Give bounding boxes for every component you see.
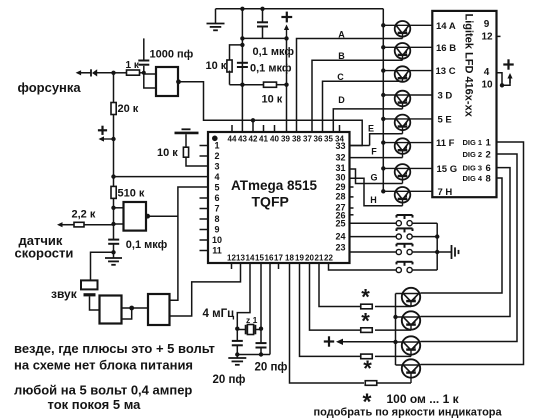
svg-text:41: 41 [259,135,268,144]
svg-text:D: D [338,95,345,105]
wire: display pins 4/10 to +5 arrow [497,73,511,88]
svg-text:10 к: 10 к [206,60,227,72]
display pin 4 label [484,67,490,78]
svg-text:15: 15 [255,254,264,263]
wire: sensor node to MCU pin 4 [114,176,209,178]
wire F: MCU pin32 to T6 base [349,147,400,158]
node: rail/pin43 ladder junction [240,7,244,11]
node: crystal gnd right [259,352,263,356]
pushbutton SB1 [350,215,438,226]
buzzer BQ1 (звук) [81,280,100,310]
wire: DIG4 to driver Q1 [421,178,503,293]
svg-text:42: 42 [249,135,258,144]
transistor Q1 (digit driver) [396,288,421,307]
svg-text:8: 8 [486,174,491,185]
svg-text:31: 31 [335,163,345,173]
node: crystal right junction [259,327,263,331]
svg-text:38: 38 [292,135,301,144]
node: +5 junction y38 [284,36,288,40]
node: 1k/cap junction [142,71,146,75]
svg-text:DIG 1: DIG 1 [463,138,483,147]
svg-text:22: 22 [324,254,333,263]
pushbutton SB3 [350,244,438,255]
svg-text:23: 23 [335,243,345,253]
node: U1 output [176,79,181,84]
svg-text:14 A: 14 A [436,21,456,32]
svg-text:4: 4 [214,172,219,182]
note: brightness note [314,407,503,419]
svg-text:15 G: 15 G [437,164,458,175]
svg-text:11: 11 [212,246,222,256]
svg-text:8: 8 [214,214,219,224]
svg-text:*: * [361,285,370,310]
svg-text:18: 18 [285,254,294,263]
transistor T7 (segment G) [383,164,432,183]
svg-text:6: 6 [486,163,491,174]
node: crystal gnd left [235,352,239,356]
wire D: MCU pin35 to T4 base [333,95,399,132]
display pin 12 label [482,32,494,43]
wire: DIG1 to driver Q4 [421,142,524,365]
svg-text:9: 9 [214,225,219,235]
capacitor 0.1uF at speed sensor [108,224,167,252]
node: U2 output [145,214,150,219]
svg-text:1: 1 [214,141,219,151]
MCU top pin stubs [232,125,340,132]
wire: buttons common rail [435,223,439,270]
wire: +5 vertical to MCU pin 39 (VCC) [286,38,288,132]
pushbutton SB4 (from MCU pin 22) [329,262,438,273]
svg-text:4: 4 [484,67,490,78]
node: U3 output junction [129,306,134,311]
svg-text:Ligitek LFD 416x-xx: Ligitek LFD 416x-xx [463,14,475,118]
ground (crystal) [228,355,246,365]
svg-text:C: C [337,72,344,82]
node: rail junction T4 [381,93,385,97]
MCU left pin stubs [200,146,209,251]
label: 4 мГц [203,308,235,320]
svg-text:H: H [370,195,377,205]
display pin 12 stub [497,35,501,37]
wire: MCU pin 19 to driver Q3 base [300,263,363,356]
wire: +5 rail for segment transistors [382,9,384,192]
+5V arrow (drivers rail) [324,336,396,346]
diode VD1 on injector line [91,69,97,76]
resistor * (base of Q2) [361,328,411,333]
svg-text:6: 6 [214,193,219,203]
svg-text:z 1: z 1 [246,315,258,325]
crystal Z1 4MHz [237,315,261,335]
svg-text:20 пф: 20 пф [213,374,246,386]
svg-text:10: 10 [212,235,222,245]
display U6 Ligitek LFD416x body [432,11,496,197]
wire A: MCU pin38 to T1 base [297,30,400,133]
svg-text:на схеме нет блока питания: на схеме нет блока питания [14,358,193,373]
display DIG labels [463,138,492,185]
wire: drivers +5 emitter rail [393,294,397,366]
resistor 1k (injector series) [114,60,144,75]
svg-text:DIG 4: DIG 4 [463,174,483,183]
node: sensor ground node [111,250,115,254]
transistor T4 (segment D) [383,91,432,109]
label: 20 пф left [213,374,246,386]
label: 20 пф right [255,362,288,374]
svg-text:DIG 3: DIG 3 [463,164,483,173]
svg-text:19: 19 [295,254,304,263]
node: comparator U2 input A [111,206,115,210]
node: rail junction T8 [381,189,385,193]
svg-text:ток покоя 5 ма: ток покоя 5 ма [48,397,142,412]
MCU bottom pin numbers 12-22 [227,254,333,263]
node: rail junction T7 [381,166,385,170]
svg-text:10: 10 [482,80,494,91]
node: ladder junction y45 [240,43,244,47]
svg-text:3 D: 3 D [438,91,453,102]
capacitor 0.1uF bypass (upper) [253,9,295,58]
wire: MCU pin 21 to driver Q1 base [319,263,362,307]
wire: MCU pin15 to crystal right [260,263,262,329]
svg-text:11 F: 11 F [436,138,455,149]
node: junction on pin42 stub [251,118,255,122]
svg-text:16: 16 [265,254,274,263]
svg-text:20 пф: 20 пф [255,362,288,374]
svg-text:37: 37 [303,135,312,144]
capacitor 0.1uF (lower) [237,63,292,75]
svg-text:28: 28 [335,192,345,202]
svg-text:24: 24 [335,232,345,242]
wire: MCU pin 20 to driver Q2 base [310,263,363,330]
node: speed-sensor input node [111,174,115,178]
node: injector junction [111,71,115,75]
svg-text:29: 29 [335,182,345,192]
svg-text:17: 17 [274,254,283,263]
svg-text:*: * [361,309,370,334]
svg-text:9: 9 [484,19,490,30]
note: power note line 1 [14,341,215,356]
svg-text:13 C: 13 C [436,66,456,77]
node: rail/bypass-cap junction [260,7,264,11]
resistor * (base of Q3) [361,354,411,359]
sound gate U4 [148,294,170,325]
svg-text:44: 44 [228,135,237,144]
resistor 510k feedback [111,177,145,208]
capacitor 20pF (right) [256,329,267,355]
ground (pin3 pull network) [175,129,199,147]
transistor T5 (segment E) [383,115,432,134]
wire: U4 bottom output to MCU pin 13 [170,263,241,316]
svg-text:3: 3 [214,162,219,172]
svg-text:35: 35 [324,135,333,144]
label: звук [51,287,78,301]
svg-text:30: 30 [335,173,345,183]
svg-text:подобрать по яркости индикатор: подобрать по яркости индикатора [314,407,503,419]
svg-text:2: 2 [486,150,491,161]
svg-text:100 ом ... 1 к: 100 ом ... 1 к [387,392,460,406]
svg-text:21: 21 [315,254,324,263]
node: rail junction T1 [381,23,385,27]
ground (buttons) [437,245,458,259]
transistor T8 (segment H) [383,187,432,206]
wire: U4 top output to MCU pin 5 vertical net [170,187,209,300]
wire C: MCU pin36 to T3 base [323,72,400,132]
wire: MCU pin14 to crystal left [237,263,250,329]
node: ladder junction y85 [240,83,244,87]
transistor Q2 (digit driver) [396,311,421,330]
note: resistor legend [363,389,460,415]
+5V tap arrow at injector divider [98,126,116,142]
resistor 10k (vertical, divider) [206,45,243,85]
svg-text:39: 39 [281,135,290,144]
wire: divider node down to sensor node [113,139,115,177]
comparator U2 (speed sensor shaper) [114,202,147,231]
transistor T1 (segment A) [383,21,432,39]
comparator U1 (injector shaper) [144,67,178,96]
svg-text:любой на 5 вольт 0,4 ампер: любой на 5 вольт 0,4 ампер [14,383,192,398]
node: comparator U2 input B [111,222,115,226]
svg-text:33: 33 [335,141,345,151]
svg-text:*: * [363,356,372,381]
wire: DIG2 to driver Q3 [421,154,518,342]
display segment pin labels [436,21,458,198]
+5V arrow (top) [281,12,292,39]
wire E: MCU pin33 to T5 base [349,124,400,146]
svg-text:43: 43 [238,135,247,144]
svg-text:звук: звук [51,287,78,301]
svg-text:16 B: 16 B [436,43,456,54]
MCU left pin numbers 1-11 [212,141,222,256]
transistor T6 (segment F) [383,138,432,157]
svg-text:5: 5 [214,183,219,193]
wire: ladder vertical to MCU pin 43 [241,9,243,132]
node: crystal left junction [235,327,239,331]
wire: U3 output and feedback loop [122,308,149,319]
svg-text:везде, где плюсы это + 5 вольт: везде, где плюсы это + 5 вольт [14,341,215,356]
svg-text:G: G [370,173,377,183]
node: rail junction T3 [381,68,385,72]
svg-text:10 к: 10 к [262,94,283,106]
+5V arrow (display supply) [503,59,513,83]
ground (speed sensor cap) [105,252,122,264]
display pin 10 label [482,80,494,91]
resistor * (base of Q4) [365,381,411,386]
label: форсунка [18,80,82,95]
node: ladder junction y38 [240,36,244,40]
MCU right pin numbers 33-23 [335,141,345,253]
wire: stub down to MCU pin 42 [252,120,254,132]
wire G: MCU pin31 to T7 base [349,169,400,184]
wire: sensor node to buzzer [91,252,114,280]
svg-text:TQFP: TQFP [252,194,289,210]
wire H: MCU pin30 to T8 base [349,178,400,206]
resistor * (base of Q1) [361,304,411,309]
wire: DIG3 to driver Q2 [421,168,511,317]
node: +5/pin39 junction y85 [284,83,288,87]
transistor Q3 (digit driver) [396,336,421,356]
svg-text:13: 13 [236,254,245,263]
svg-text:5 E: 5 E [438,115,452,126]
svg-text:20 к: 20 к [118,103,139,115]
base hooks for T1-T8 [399,39,403,206]
wire: crystal ground rail / MCU pin16 [237,263,270,355]
asterisk mark 2 [361,309,370,334]
MCU bottom pin stubs (12,17) [232,263,279,269]
svg-text:14: 14 [246,254,255,263]
svg-text:B: B [338,51,345,61]
resistor 10k (pin 3) [157,147,208,166]
resistor 20k (vertical, injector divider) [111,73,139,139]
svg-text:1: 1 [486,138,492,149]
wire: MCU pin 18 to driver Q4 base [290,263,365,383]
svg-text:ATmega 8515: ATmega 8515 [231,178,318,193]
resistor 2.2k (speed sensor series) [57,209,114,228]
display pin 9 label [484,19,490,30]
wire: U2 output to pin5 net [146,215,178,217]
wire: U1 output routed to MCU pin 42 and pin 33 [177,82,362,146]
svg-text:20: 20 [305,254,314,263]
resistor 10k (horizontal) [230,82,287,105]
sound driver U3 [100,296,122,324]
MCU U5 ATmega8515 TQFP body [208,132,350,263]
svg-text:25: 25 [335,219,345,229]
svg-text:2,2 к: 2,2 к [72,209,96,221]
asterisk mark 3 [363,356,372,381]
pushbutton SB2 [350,228,438,239]
capacitor 20pF (left) [232,329,243,355]
svg-text:A: A [338,30,345,40]
note: power note line 2 [14,358,193,373]
svg-text:510 к: 510 к [118,188,145,200]
ground (top rail) [207,9,225,31]
svg-text:0,1 мкф: 0,1 мкф [126,239,168,251]
svg-text:F: F [371,147,377,157]
node: rail junction T6 [381,140,385,144]
svg-text:DIG 2: DIG 2 [463,150,483,159]
svg-text:7 H: 7 H [438,187,453,198]
capacitor 1000pF [138,38,193,72]
svg-text:4 мГц: 4 мГц [203,308,235,320]
svg-text:2: 2 [214,151,219,161]
MCU right pin stubs (29-26) [350,187,354,215]
wire: top ground rail [216,8,384,10]
wire: node A down to node B [113,208,115,224]
svg-text:E: E [368,124,374,134]
note: power note line 4 [48,397,142,412]
svg-text:0,1 мкф: 0,1 мкф [253,46,295,58]
wire: injector input line with pickup arrow [76,70,114,75]
transistor T2 (segment B) [383,43,432,60]
svg-text:32: 32 [335,153,345,163]
svg-text:10 к: 10 к [157,147,178,159]
note: power note line 3 [14,383,192,398]
svg-text:40: 40 [270,135,279,144]
svg-text:12: 12 [482,32,494,43]
wire: cap to +5 node [242,37,286,39]
node: rail junction T2 [381,45,385,49]
transistor T3 (segment C) [383,66,432,82]
transistor Q4 (digit driver) [396,359,421,383]
node: rail junction T5 [381,117,385,121]
label: датчик скорости [15,233,74,260]
svg-text:форсунка: форсунка [18,80,82,95]
svg-text:36: 36 [314,135,323,144]
svg-text:скорости: скорости [15,245,74,260]
svg-text:7: 7 [214,204,219,214]
svg-text:0,1 мкф: 0,1 мкф [250,63,292,75]
wire B: MCU pin37 to T2 base [312,51,399,132]
svg-text:1000 пф: 1000 пф [150,49,194,61]
asterisk mark 1 [361,285,370,310]
MCU top pin numbers 44-34 [228,135,345,144]
svg-text:1 к: 1 к [126,60,140,71]
